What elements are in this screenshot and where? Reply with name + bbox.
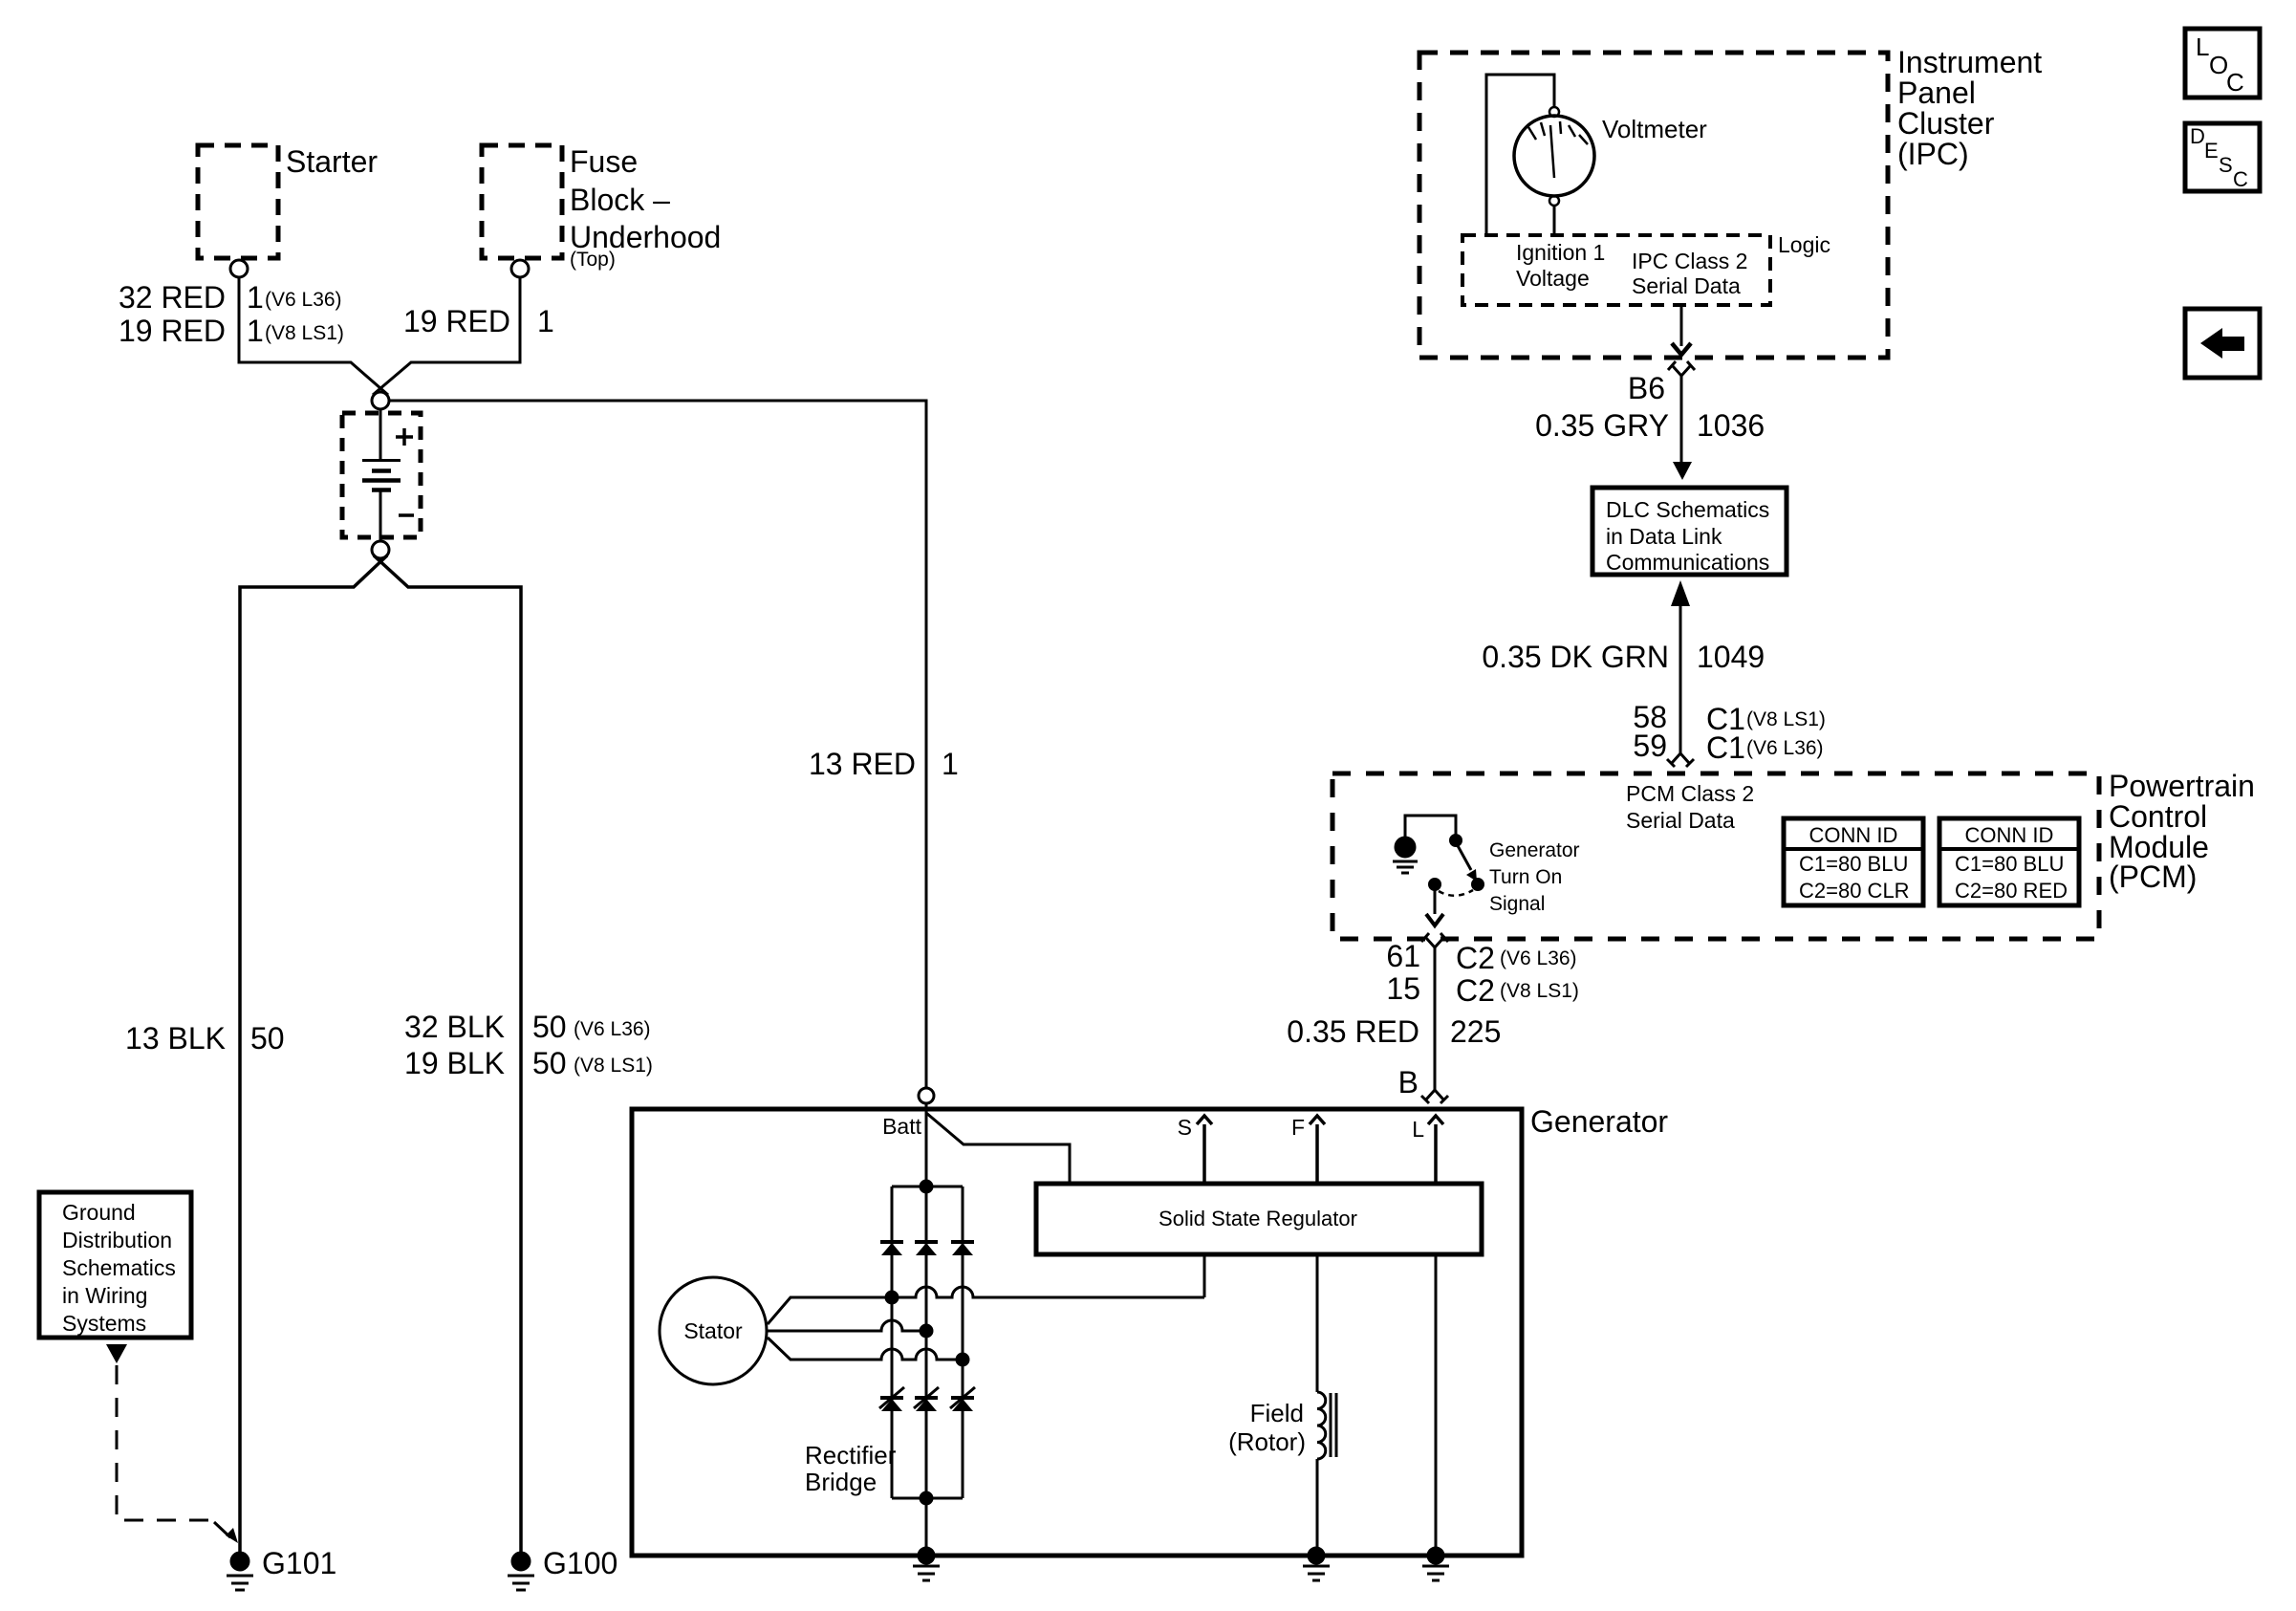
G101 ground dot xyxy=(231,1553,249,1570)
svg-text:Logic: Logic xyxy=(1778,232,1830,257)
node phase B junction xyxy=(921,1325,932,1337)
connector Y below PCM xyxy=(1421,933,1448,947)
G101 ground hatches xyxy=(227,1576,253,1590)
svg-text:Ground: Ground xyxy=(62,1200,136,1225)
starter terminal circle xyxy=(230,260,248,277)
svg-text:Bridge: Bridge xyxy=(805,1468,877,1496)
generator ground Batt hatches xyxy=(913,1566,940,1580)
solid state regulator box xyxy=(1036,1184,1482,1254)
G100 ground hatches xyxy=(508,1576,534,1590)
svg-text:1: 1 xyxy=(537,304,554,338)
svg-text:B6: B6 xyxy=(1628,371,1665,405)
DESC reference box xyxy=(2185,123,2260,191)
arrowhead up from PCM wire xyxy=(1671,580,1690,606)
field rotor coil xyxy=(1317,1392,1326,1459)
svg-text:(V8 LS1): (V8 LS1) xyxy=(1500,980,1579,1002)
voltmeter ticks and needle xyxy=(1528,121,1588,178)
svg-text:G100: G100 xyxy=(543,1546,617,1580)
svg-text:0.35 DK GRN: 0.35 DK GRN xyxy=(1482,640,1669,674)
DLC solid box xyxy=(1592,488,1787,575)
svg-text:PCM Class 2: PCM Class 2 xyxy=(1626,781,1754,806)
svg-text:Powertrain: Powertrain xyxy=(2109,769,2255,803)
generator ground Batt dot xyxy=(919,1548,934,1563)
stator phase B wire xyxy=(767,1320,926,1331)
svg-text:Ignition 1: Ignition 1 xyxy=(1516,240,1605,265)
svg-text:G101: G101 xyxy=(262,1546,336,1580)
connector Y B6 xyxy=(1668,361,1695,376)
battery negative lead wire xyxy=(379,491,382,541)
connector Y inverted above generator xyxy=(1421,1090,1448,1103)
voltmeter gauge circle xyxy=(1514,116,1594,196)
F wire field to ground xyxy=(1316,1459,1319,1549)
svg-text:(PCM): (PCM) xyxy=(2109,860,2197,894)
CONN ID box C2=80 RED xyxy=(1939,818,2079,905)
svg-text:(V8 LS1): (V8 LS1) xyxy=(1746,708,1826,730)
voltmeter wires xyxy=(1486,75,1554,236)
svg-text:C1: C1 xyxy=(1706,730,1745,765)
svg-text:(V6 L36): (V6 L36) xyxy=(574,1018,651,1040)
svg-text:1036: 1036 xyxy=(1697,408,1765,443)
generator ground F dot xyxy=(1309,1548,1324,1563)
rectifier bridge left rail xyxy=(891,1186,894,1498)
voltmeter bottom terminal xyxy=(1549,196,1559,206)
svg-text:32 RED: 32 RED xyxy=(119,280,226,315)
svg-text:S: S xyxy=(1178,1115,1192,1140)
svg-text:50: 50 xyxy=(250,1021,285,1056)
svg-text:Serial Data: Serial Data xyxy=(1632,273,1741,298)
svg-text:in Data Link: in Data Link xyxy=(1606,524,1722,549)
svg-text:15: 15 xyxy=(1386,971,1420,1006)
svg-text:(V6 L36): (V6 L36) xyxy=(1746,737,1824,759)
wire B6 to DLC xyxy=(1680,375,1683,463)
switch ground dot xyxy=(1396,838,1415,857)
svg-text:(V6 L36): (V6 L36) xyxy=(1500,947,1577,969)
svg-text:F: F xyxy=(1291,1115,1305,1140)
svg-text:Serial Data: Serial Data xyxy=(1626,808,1735,833)
svg-text:Batt: Batt xyxy=(882,1114,922,1139)
fuse block dashed box xyxy=(482,145,562,258)
svg-text:13 RED: 13 RED xyxy=(809,747,916,781)
svg-text:0.35 GRY: 0.35 GRY xyxy=(1535,408,1669,443)
dashed reference line to G101 xyxy=(117,1365,212,1520)
svg-text:Fuse: Fuse xyxy=(570,144,638,179)
wire fuse block to battery junction xyxy=(373,277,520,395)
PCM dashed box xyxy=(1332,773,2099,939)
svg-text:1: 1 xyxy=(247,314,264,348)
svg-text:Voltmeter: Voltmeter xyxy=(1602,115,1707,143)
node battery negative junction xyxy=(372,541,389,558)
svg-text:(Top): (Top) xyxy=(570,249,616,271)
svg-text:Schematics: Schematics xyxy=(62,1255,176,1280)
generator ground F hatches xyxy=(1303,1566,1330,1580)
svg-text:Stator: Stator xyxy=(683,1318,743,1343)
svg-text:Signal: Signal xyxy=(1489,893,1545,915)
svg-text:59: 59 xyxy=(1633,729,1667,763)
node phase C junction xyxy=(957,1354,968,1365)
generator ground L dot xyxy=(1428,1548,1443,1563)
back arrow box xyxy=(2185,309,2260,378)
L terminal wire and arrowhead xyxy=(1428,1116,1443,1184)
svg-text:(V8 LS1): (V8 LS1) xyxy=(574,1055,653,1077)
switch arm xyxy=(1456,842,1471,870)
svg-text:CONN ID: CONN ID xyxy=(1965,823,2054,847)
svg-text:Solid State Regulator: Solid State Regulator xyxy=(1159,1207,1357,1230)
svg-text:Distribution: Distribution xyxy=(62,1228,172,1252)
svg-text:(V8 LS1): (V8 LS1) xyxy=(265,322,344,344)
svg-text:Generator: Generator xyxy=(1489,839,1580,861)
svg-text:19 BLK: 19 BLK xyxy=(404,1046,505,1080)
arrowhead onto G101 wire xyxy=(214,1522,230,1537)
svg-text:(Rotor): (Rotor) xyxy=(1228,1427,1306,1456)
stator circle xyxy=(660,1277,767,1384)
svg-text:61: 61 xyxy=(1386,939,1420,973)
stator phase C wire xyxy=(768,1338,963,1360)
S terminal wire and arrowhead xyxy=(1197,1116,1212,1184)
svg-text:D: D xyxy=(2190,124,2205,148)
svg-text:(V6 L36): (V6 L36) xyxy=(265,289,342,311)
svg-text:225: 225 xyxy=(1450,1014,1501,1049)
wire battery negative to G101 branch xyxy=(240,555,387,1553)
svg-text:Instrument: Instrument xyxy=(1897,45,2042,79)
generator ground L hatches xyxy=(1422,1566,1449,1580)
back arrow icon xyxy=(2200,328,2222,359)
lower avalanche diodes xyxy=(880,1396,903,1400)
svg-text:Cluster: Cluster xyxy=(1897,106,1995,141)
switch contact dot left xyxy=(1430,880,1440,890)
node bridge top junction xyxy=(921,1181,932,1192)
svg-text:E: E xyxy=(2204,139,2219,163)
svg-text:Control: Control xyxy=(2109,799,2207,834)
bridge top bar xyxy=(892,1186,963,1188)
wire PCM to generator L xyxy=(1434,947,1437,1091)
switch pivot dot xyxy=(1451,836,1462,846)
svg-text:C2=80 CLR: C2=80 CLR xyxy=(1799,879,1910,903)
svg-text:C2: C2 xyxy=(1456,973,1495,1008)
svg-text:C: C xyxy=(2233,167,2248,191)
svg-text:Rectifier: Rectifier xyxy=(805,1441,897,1469)
svg-text:Panel: Panel xyxy=(1897,76,1976,110)
chevron arrowhead at PCM bottom xyxy=(1426,914,1443,925)
voltmeter top terminal xyxy=(1549,107,1559,117)
ground distribution reference box xyxy=(39,1192,191,1338)
switch wire from ground xyxy=(1405,816,1456,838)
svg-text:Systems: Systems xyxy=(62,1311,146,1336)
battery B1 plates xyxy=(362,459,401,462)
starter dashed box xyxy=(198,145,278,258)
svg-text:in Wiring: in Wiring xyxy=(62,1283,147,1308)
svg-text:50: 50 xyxy=(532,1010,567,1044)
connector Y inverted at PCM top xyxy=(1667,753,1694,767)
svg-text:Generator: Generator xyxy=(1530,1104,1668,1139)
svg-text:32 BLK: 32 BLK xyxy=(404,1010,505,1044)
svg-text:Field: Field xyxy=(1250,1399,1304,1427)
chevron arrowhead at IPC bottom xyxy=(1672,343,1691,355)
svg-text:L: L xyxy=(1412,1117,1424,1142)
node phase A junction xyxy=(886,1292,898,1303)
svg-text:C2: C2 xyxy=(1456,941,1495,975)
svg-text:C: C xyxy=(2226,68,2244,97)
svg-text:Voltage: Voltage xyxy=(1516,266,1590,291)
svg-text:Starter: Starter xyxy=(286,144,378,179)
Batt terminal circle xyxy=(919,1088,934,1103)
arrowhead into DLC box xyxy=(1673,462,1692,480)
F wire regulator to field xyxy=(1316,1254,1319,1392)
wire Batt to regulator xyxy=(926,1113,1070,1182)
node battery positive junction xyxy=(372,392,389,409)
field core lines xyxy=(1331,1393,1336,1457)
stator phase A wire xyxy=(768,1287,1204,1324)
rectifier bridge right rail xyxy=(962,1186,964,1498)
svg-text:(IPC): (IPC) xyxy=(1897,137,1969,171)
svg-text:0.35 RED: 0.35 RED xyxy=(1287,1014,1419,1049)
battery positive lead wire xyxy=(379,409,382,460)
svg-text:Block –: Block – xyxy=(570,183,670,217)
svg-text:IPC Class 2: IPC Class 2 xyxy=(1632,249,1747,273)
S wire regulator to stator phase xyxy=(1203,1254,1206,1297)
svg-text:1049: 1049 xyxy=(1697,640,1765,674)
svg-text:19 RED: 19 RED xyxy=(403,304,510,338)
svg-text:C2=80 RED: C2=80 RED xyxy=(1955,879,2068,903)
switch dashed arc xyxy=(1439,890,1473,896)
svg-text:S: S xyxy=(2219,153,2233,177)
LOC reference box xyxy=(2185,29,2260,98)
IPC class 2 serial data wire xyxy=(1680,307,1683,346)
svg-text:C1=80 BLU: C1=80 BLU xyxy=(1955,852,2064,876)
svg-text:19 RED: 19 RED xyxy=(119,314,226,348)
CONN ID box C2=80 CLR xyxy=(1784,818,1923,905)
svg-text:CONN ID: CONN ID xyxy=(1809,823,1898,847)
svg-text:1: 1 xyxy=(942,747,959,781)
F terminal wire and arrowhead xyxy=(1310,1116,1325,1184)
switch ground hatches xyxy=(1393,861,1418,873)
svg-text:DLC Schematics: DLC Schematics xyxy=(1606,497,1769,522)
Batt wire down to ground xyxy=(925,1103,928,1549)
battery plus sign xyxy=(396,428,413,446)
generator turn on signal wire xyxy=(1434,889,1437,914)
svg-text:L: L xyxy=(2196,33,2209,61)
wire starter to battery junction xyxy=(239,277,388,395)
svg-text:B: B xyxy=(1398,1065,1419,1099)
G100 ground dot xyxy=(512,1553,530,1570)
switch arm arrowhead xyxy=(1466,869,1477,882)
battery minus sign xyxy=(399,513,414,517)
fuse terminal circle xyxy=(511,260,529,277)
svg-text:13 BLK: 13 BLK xyxy=(125,1021,226,1056)
wire junction to generator Batt terminal xyxy=(389,401,926,1087)
switch contact dot right xyxy=(1473,880,1484,890)
svg-text:Turn On: Turn On xyxy=(1489,866,1562,888)
svg-text:C1=80 BLU: C1=80 BLU xyxy=(1799,852,1908,876)
IPC logic dashed box xyxy=(1462,235,1770,305)
upper rectifier diodes xyxy=(880,1240,903,1244)
L wire regulator to ground xyxy=(1435,1254,1438,1549)
battery B1 dashed box xyxy=(342,413,421,537)
triangle arrow below reference box xyxy=(106,1344,127,1363)
bridge bottom bar xyxy=(892,1497,963,1500)
wire PCM to DLC xyxy=(1679,604,1682,754)
IPC dashed box xyxy=(1419,53,1888,358)
generator box xyxy=(632,1109,1522,1556)
svg-text:1: 1 xyxy=(247,280,264,315)
svg-text:50: 50 xyxy=(532,1046,567,1080)
wire battery negative to G100 branch xyxy=(374,555,521,1553)
node bridge bottom junction xyxy=(921,1492,932,1504)
svg-text:Communications: Communications xyxy=(1606,550,1769,575)
